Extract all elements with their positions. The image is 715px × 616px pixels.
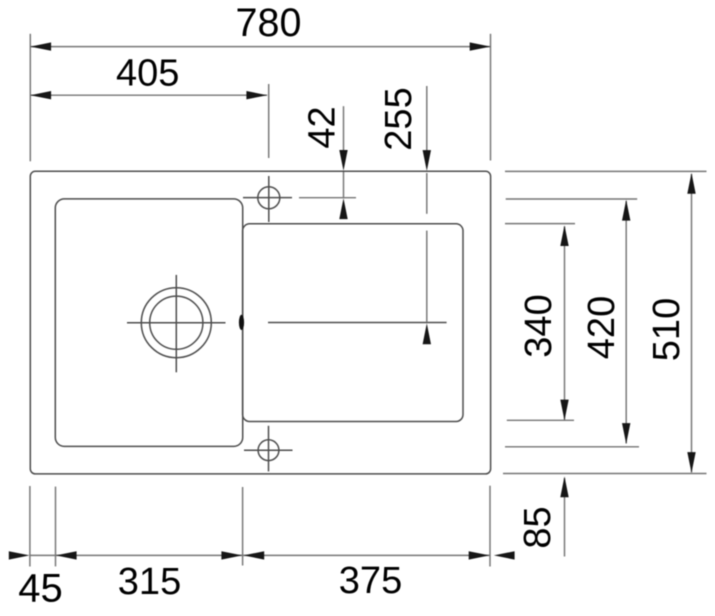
svg-text:510: 510 xyxy=(646,298,688,361)
arrow 780 right xyxy=(470,42,491,50)
dim 420 line xyxy=(625,201,627,444)
arrow 255 down xyxy=(423,150,431,171)
svg-text:315: 315 xyxy=(118,561,181,603)
dim 255 line xyxy=(426,86,428,152)
overflow mark xyxy=(239,315,244,330)
arrow 405 left xyxy=(30,91,51,99)
dim 85 line xyxy=(564,478,566,557)
tap hole top xyxy=(258,187,280,209)
svg-text:42: 42 xyxy=(302,106,344,148)
dim 42 line xyxy=(343,106,345,152)
tap hole top crosshair xyxy=(243,197,292,199)
tap hole bottom xyxy=(258,440,279,461)
bottom extension lines xyxy=(29,486,31,567)
arrow 780 left xyxy=(30,42,51,50)
arrow 315 left xyxy=(56,551,77,559)
dim 340 line xyxy=(564,227,566,420)
dim 405 line xyxy=(30,94,267,96)
sink outer edge xyxy=(30,171,490,474)
arrow 85 up xyxy=(560,476,568,497)
arrow 315 right xyxy=(221,551,242,559)
dim 780 line xyxy=(30,46,490,48)
right extension lines xyxy=(505,170,707,172)
arrow 45 outside left xyxy=(9,551,30,559)
arrow 255 up xyxy=(423,323,431,344)
drain crosshair xyxy=(127,322,226,324)
svg-text:340: 340 xyxy=(518,294,560,357)
svg-text:375: 375 xyxy=(339,560,402,602)
drain inner circle xyxy=(150,296,203,349)
arrow 510 down xyxy=(687,452,695,473)
arrow 420 up xyxy=(622,200,630,221)
svg-text:405: 405 xyxy=(116,53,179,95)
arrow 340 up xyxy=(560,225,568,246)
arrow 42 down xyxy=(339,150,347,171)
tap hole bottom crosshair xyxy=(244,449,293,451)
arrow 375 left xyxy=(243,551,264,559)
drainboard xyxy=(243,224,463,422)
svg-text:45: 45 xyxy=(18,567,63,611)
arrow 42 up xyxy=(339,198,347,219)
arrow 510 up xyxy=(687,173,695,194)
arrow 340 down xyxy=(560,400,568,421)
arrow 405 right xyxy=(246,91,267,99)
dim 780 extension lines xyxy=(29,34,31,162)
centerline right of drain xyxy=(268,322,447,324)
bottom dim line xyxy=(30,554,490,556)
dim 405 extension line / tap centerline upper xyxy=(268,84,270,158)
svg-text:255: 255 xyxy=(378,87,420,150)
arrow 375 right xyxy=(469,551,490,559)
svg-text:85: 85 xyxy=(517,506,559,548)
arrow 420 down xyxy=(622,423,630,444)
svg-text:420: 420 xyxy=(581,296,623,359)
arrow outside right xyxy=(494,551,515,559)
bowl xyxy=(55,199,242,447)
dim 42 extension at tap centre xyxy=(299,197,356,199)
svg-text:780: 780 xyxy=(236,1,302,45)
drain outer circle xyxy=(141,288,211,358)
dim 510 line xyxy=(691,174,693,472)
